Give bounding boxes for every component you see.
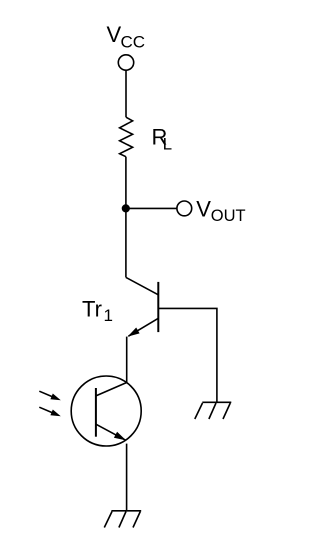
wire Tr1 emitter to phototransistor collector (126, 337, 128, 383)
svg-text:V: V (196, 197, 211, 222)
wire Tr1 base to right ground (158, 308, 217, 402)
phototransistor PT base bar (95, 388, 97, 437)
svg-text:L: L (163, 135, 172, 154)
terminal VCC (118, 55, 133, 70)
phototransistor PT emitter arrow (114, 432, 126, 441)
resistor RL (120, 117, 133, 157)
terminal VOUT (177, 201, 192, 216)
node junction dot at VOUT tap (122, 204, 130, 212)
label Tr1 (82, 296, 113, 325)
svg-text:Tr: Tr (82, 296, 102, 321)
ground right (base) (195, 402, 232, 419)
wire phototransistor emitter to bottom ground (126, 444, 128, 511)
svg-text:V: V (107, 22, 122, 47)
light arrow 1 (39, 391, 61, 400)
ground bottom (emitter) (104, 511, 141, 528)
label RL (152, 124, 173, 153)
label VOUT (196, 197, 245, 225)
phototransistor PT emitter lead (96, 424, 125, 440)
phototransistor PT body circle (71, 376, 141, 446)
svg-text:OUT: OUT (211, 207, 246, 225)
phototransistor PT collector lead (96, 383, 127, 396)
transistor Tr1 emitter lead (128, 318, 158, 336)
light arrow 2 (39, 407, 61, 416)
wire resistor to Tr1 collector bend (125, 157, 127, 278)
wire VCC terminal to resistor (125, 70, 127, 117)
transistor Tr1 emitter arrow (128, 328, 140, 337)
transistor Tr1 collector lead (126, 277, 158, 294)
svg-text:CC: CC (121, 33, 146, 52)
wire node to VOUT terminal (126, 207, 177, 209)
svg-text:1: 1 (104, 306, 113, 325)
transistor Tr1 base bar (157, 282, 159, 332)
label VCC (107, 22, 146, 51)
